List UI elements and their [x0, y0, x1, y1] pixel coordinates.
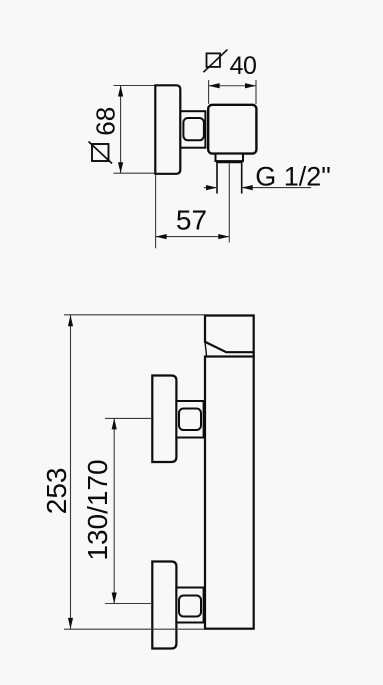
dim 253: arrow down: [68, 618, 73, 629]
dim G 1/2: arrow pointing right: [206, 185, 217, 190]
dim 68: square symbol diagonal: [89, 142, 113, 164]
dim G 1/2: left leader line: [204, 187, 217, 189]
top escutcheon (wall flange): [152, 376, 176, 463]
dim 40: left extension line: [208, 80, 210, 104]
dim 40: square symbol diagonal: [203, 50, 227, 73]
collar below body: [216, 154, 244, 162]
pipe centerline (also 57 dim right extension): [228, 163, 230, 243]
dim 40: square symbol: [207, 53, 221, 67]
dim 40: arrow left: [209, 83, 220, 88]
dim G 1/2: right leader line: [242, 187, 311, 189]
dim 57: dimension line: [156, 236, 230, 238]
dim 253: dimension line: [70, 315, 72, 629]
pipe left side: [216, 163, 218, 194]
dim 253: top extension line: [64, 314, 205, 316]
dim 57: arrow left: [156, 234, 167, 239]
main body bar: [205, 357, 254, 629]
dim G 1/2: arrow pointing left: [242, 185, 253, 190]
handle lever (top block with diagonal underside): [205, 316, 254, 353]
dim 130/170: arrow up: [112, 418, 117, 429]
hex nut between plate and body (outer box): [180, 111, 205, 148]
top connection nut facet: [179, 409, 201, 431]
dim 40: arrow right: [245, 83, 256, 88]
svg-text:68: 68: [91, 107, 121, 136]
dim 68: square symbol: [92, 144, 109, 161]
dim 130/170: top extension line: [105, 417, 152, 419]
svg-text:57: 57: [176, 204, 207, 235]
svg-text:130/170: 130/170: [82, 459, 113, 560]
pipe right side: [241, 163, 243, 194]
dim 68: arrow up: [118, 86, 123, 97]
dim 40: dimension line: [209, 85, 256, 87]
bottom connection nut facet: [179, 596, 201, 617]
bottom connection nut (outer box): [176, 588, 203, 623]
dim 253: arrow up: [68, 315, 73, 326]
top connection nut (outer box): [176, 401, 203, 438]
dim 68: dimension line: [120, 86, 122, 174]
square body of union: [208, 105, 256, 154]
svg-text:G 1/2": G 1/2": [255, 161, 331, 191]
handle/body right-edge junction: [253, 352, 255, 356]
dim 57: arrow right: [218, 234, 229, 239]
wire extension of plate left edge (57 dim left extension): [155, 175, 157, 249]
handle tip sliver: [205, 342, 207, 357]
dim 68: top extension line: [114, 85, 156, 87]
dim 253: bottom extension line (crosses escutcheon): [64, 628, 205, 630]
dim 40: right extension line: [255, 80, 257, 104]
wall plate (side view, rounded right corners): [155, 85, 180, 174]
dim 130/170: arrow down: [112, 593, 117, 604]
hex nut facet (rounded square): [183, 118, 204, 140]
thread top line: [216, 162, 242, 164]
svg-text:40: 40: [230, 52, 257, 80]
dim 130/170: dimension line: [113, 418, 115, 603]
dim 68: arrow down: [118, 162, 123, 173]
dim 68: bottom extension line: [114, 172, 156, 174]
bottom escutcheon (wall flange): [152, 562, 176, 649]
svg-text:253: 253: [41, 468, 72, 515]
dim 130/170: bottom extension line: [105, 603, 152, 605]
